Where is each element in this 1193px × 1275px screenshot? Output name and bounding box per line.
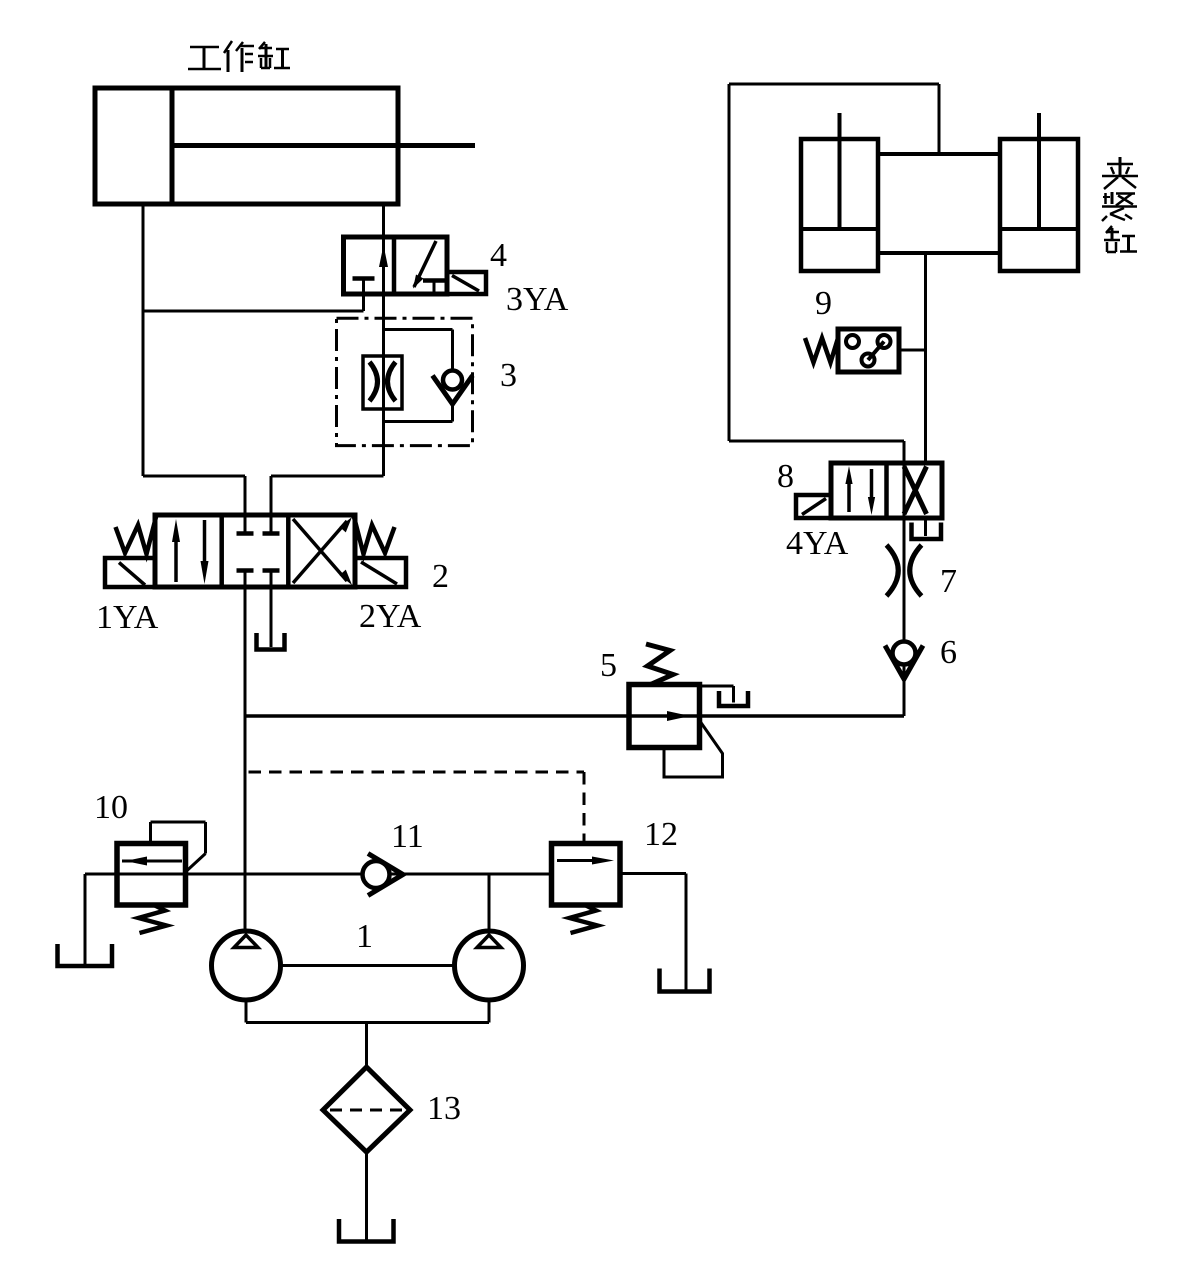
label 11: [391, 818, 424, 855]
check valve 3a: [433, 371, 473, 405]
svg-text:10: 10: [94, 789, 128, 826]
valve 2 centre blocked ports: [237, 534, 280, 571]
svg-text:7: 7: [940, 563, 957, 600]
label 7: [940, 563, 957, 600]
clamp cylinder right piston and rod: [1000, 113, 1078, 229]
wire pilot valve 9 to line: [899, 349, 926, 352]
wire branch to valve 4 left port: [143, 294, 364, 311]
svg-text:4: 4: [490, 237, 507, 274]
label 3YA: [506, 281, 569, 318]
sequence valve 5 arrow: [667, 711, 690, 721]
working cylinder body: [95, 88, 398, 204]
svg-text:13: 13: [427, 1090, 461, 1127]
pilot dashed line to valve 12: [249, 772, 585, 844]
label 1YA: [96, 599, 159, 636]
tank below valve 8: [912, 523, 942, 540]
wire cylinder right port main line: [382, 204, 385, 476]
label 12: [644, 816, 678, 853]
valve 8 tank port: [924, 518, 927, 536]
svg-text:6: 6: [940, 634, 957, 671]
working cylinder rod: [172, 143, 475, 148]
valve 8 through line down to junction: [903, 441, 906, 716]
clamp cylinder left body: [801, 139, 878, 271]
pump 1 left: [212, 931, 281, 1000]
valve 2 tank port wire: [270, 573, 273, 648]
valve U4 body: [344, 237, 448, 294]
svg-text:8: 8: [777, 458, 794, 495]
tank left of relief 10: [58, 944, 113, 966]
pump shaft link: [281, 964, 455, 967]
label 1: [356, 918, 373, 955]
unloading valve 12 spring: [570, 905, 598, 933]
svg-text:3YA: 3YA: [506, 281, 569, 318]
label 4YA: [786, 525, 849, 562]
valve 2 right position crossed arrows: [293, 517, 352, 585]
solenoid 2YA box: [355, 558, 406, 587]
relief valve 10 pilot loop: [151, 822, 206, 871]
unloading valve 12 body: [552, 844, 621, 906]
sequence valve 5 body: [629, 685, 700, 748]
throttle 3 arcs: [370, 362, 396, 401]
throttle 7 arcs: [887, 545, 922, 596]
tank right of valve 12: [660, 969, 710, 992]
relief valve 10 body: [117, 844, 186, 906]
working cylinder piston: [170, 88, 175, 204]
valve 8 crossed position: [904, 467, 927, 515]
pump suction wires: [246, 1000, 489, 1067]
filter 13 element dashed: [330, 1109, 403, 1112]
pilot valve 9 linkage circles: [846, 335, 891, 367]
tank below valve 2: [257, 633, 285, 650]
label 10: [94, 789, 128, 826]
clamping circuit riser wire: [729, 84, 939, 441]
svg-text:5: 5: [600, 647, 617, 684]
valve U4 diagonal arrow: [413, 241, 436, 289]
sequence valve 5 pilot loop: [664, 721, 723, 778]
check valve 3a branch wire: [384, 330, 453, 422]
label 9: [815, 285, 832, 322]
valve 2 body: [155, 515, 355, 587]
solenoid 3YA box: [447, 272, 486, 294]
main pressure line: [244, 573, 247, 932]
label 8: [777, 458, 794, 495]
relief valve 10 spring: [139, 905, 167, 933]
valve 8 left position arrows: [845, 466, 875, 515]
svg-text:1: 1: [356, 918, 373, 955]
wire rail to left tank: [84, 874, 87, 964]
valve 2 left spring: [116, 517, 157, 554]
check valve 11: [363, 854, 404, 896]
wire clamp cylinder to valve 8: [924, 253, 927, 463]
filter suction wire: [365, 1152, 368, 1240]
label 2YA: [359, 598, 422, 635]
valve 8 body: [831, 463, 942, 518]
pump 1 right: [455, 931, 524, 1000]
relief valve 10 arrow: [122, 857, 182, 866]
svg-text:2YA: 2YA: [359, 598, 422, 635]
valve U4 bottom blocked port: [423, 281, 445, 295]
filter 13 diamond: [323, 1067, 410, 1152]
label 夹紧缸: [1102, 157, 1138, 252]
wire rail to right pump: [488, 874, 491, 931]
label 工作缸: [188, 41, 290, 72]
label 13: [427, 1090, 461, 1127]
valve U4 blocked port T: [353, 279, 375, 295]
label 6: [940, 634, 957, 671]
svg-text:4YA: 4YA: [786, 525, 849, 562]
svg-text:12: 12: [644, 816, 678, 853]
tank at valve 5 drain: [719, 691, 748, 706]
valve U4 up-arrow: [379, 245, 388, 267]
svg-text:1YA: 1YA: [96, 599, 159, 636]
wire cylinder left port down: [142, 204, 145, 476]
svg-text:3: 3: [500, 357, 517, 394]
label 3: [500, 357, 517, 394]
clamp cylinder left piston and rod: [801, 113, 878, 229]
component 3 dash-dot enclosure: [337, 318, 473, 445]
svg-text:2: 2: [432, 558, 449, 595]
valve 2 left position arrows: [172, 519, 209, 584]
svg-text:11: 11: [391, 818, 424, 855]
label 5: [600, 647, 617, 684]
check valve 6: [885, 642, 923, 680]
wire valve 12 to right tank: [620, 874, 686, 992]
solenoid 1YA box: [105, 558, 155, 587]
wire left port to valve 2: [143, 476, 245, 532]
pilot valve 9 body: [838, 329, 899, 372]
svg-text:9: 9: [815, 285, 832, 322]
sequence valve 5 drain wire: [700, 686, 734, 703]
wire to sequence valve 5: [245, 714, 904, 718]
wire jog to valve 2 right top port: [271, 476, 384, 532]
clamp cylinder centre block: [878, 154, 1000, 253]
sequence valve 5 spring: [646, 644, 673, 685]
solenoid 4YA box: [796, 495, 831, 518]
throttle 3 body: [363, 356, 402, 409]
clamp cylinder right body: [1000, 139, 1078, 271]
label 2: [432, 558, 449, 595]
pilot valve 9 spring: [805, 338, 838, 363]
label 4: [490, 237, 507, 274]
valve 2 right spring: [354, 517, 395, 554]
main tank: [339, 1219, 394, 1242]
low pressure rail wire: [85, 873, 552, 876]
unloading valve 12 arrow: [557, 857, 614, 865]
